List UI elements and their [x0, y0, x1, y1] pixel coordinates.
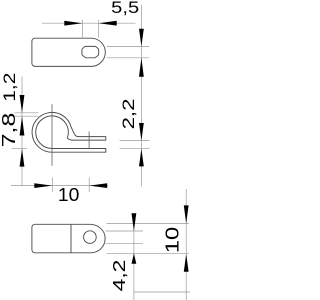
arrow 2,2 top (points down) [139, 123, 144, 141]
arrow 5,5 right (points left) [99, 21, 117, 26]
4,2 dim line [133, 213, 135, 300]
arrow 2,2 bottom (points up) [139, 149, 144, 167]
top dim line 5,5 [42, 22, 136, 24]
left dim line [21, 77, 23, 186]
arrow 4,2 bottom (points up) [132, 253, 137, 263]
arrow 4,2 top (points down) [132, 213, 137, 231]
top ext tick left [82, 20, 84, 38]
arrow 10-right top (points down) [184, 205, 189, 223]
arrow hole-height bottom (points up) [139, 58, 144, 77]
bottom view hole circle [84, 231, 97, 244]
middle view p-clip profile [32, 112, 106, 152]
loop centerline [51, 104, 53, 166]
hole height ext lines [107, 45, 149, 47]
svg-text:1,2: 1,2 [0, 73, 19, 102]
dim ticks for 10 [51, 178, 53, 193]
arrow hole-height top (points down) [139, 29, 144, 47]
svg-text:2,2: 2,2 [119, 99, 138, 130]
bottom view: hole ext lines [106, 230, 144, 232]
svg-text:7,8: 7,8 [0, 113, 19, 148]
bottom dim line 10 [11, 185, 108, 187]
arrow 10-right bottom (points up) [184, 254, 189, 272]
svg-text:4,2: 4,2 [109, 260, 129, 292]
bottom ext line [134, 291, 190, 293]
arrow 10 right (points left) [89, 183, 107, 188]
2,2 ext lines [120, 140, 150, 142]
arrow 1,2 bottom (points up) [20, 116, 25, 135]
svg-text:10: 10 [163, 227, 183, 254]
bottom view bend line [70, 224, 72, 253]
svg-text:10: 10 [58, 185, 80, 205]
arrow 5,5 left (points right) [64, 21, 82, 26]
right vertical dim line [140, 5, 142, 187]
left ext lines (loop top outer/inner) [15, 112, 39, 114]
strap hole centerline [88, 132, 90, 149]
arrow 7,8 bottom (points up) [20, 149, 25, 167]
bottom view: tab height ext lines [107, 223, 189, 225]
arrow 10 left (points right) [34, 183, 52, 188]
bottom view tab outline [32, 224, 105, 253]
top ext tick right [98, 20, 100, 38]
arrow 1,2 top (points down) [20, 95, 25, 113]
top view hole (rounded octagon) [82, 46, 99, 57]
svg-text:5,5: 5,5 [111, 0, 139, 17]
10 dim line (right) [185, 189, 187, 300]
top view tab outline [32, 38, 105, 66]
left ext line (loop inner bottom) [12, 148, 28, 150]
